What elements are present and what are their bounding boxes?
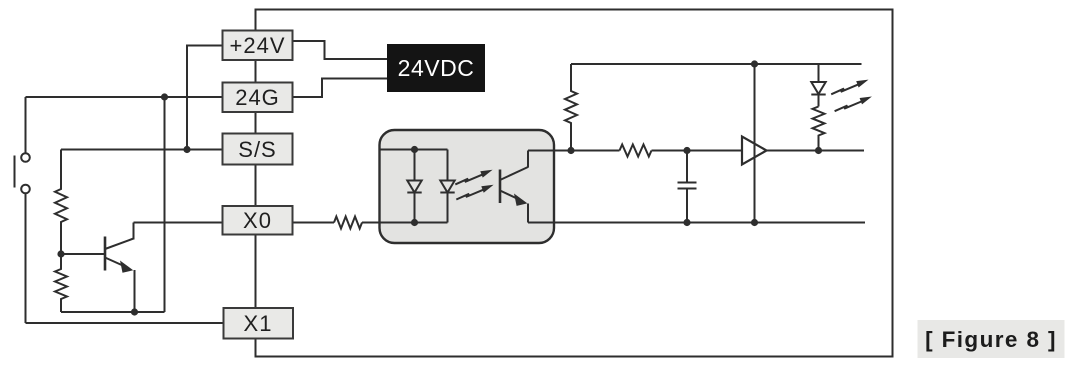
capacitor C1 xyxy=(678,151,697,223)
wire switch to X1 xyxy=(26,322,223,324)
wire jumper +24V to S/S xyxy=(187,46,223,150)
light arrows indicator xyxy=(831,80,872,112)
top rail xyxy=(571,63,862,65)
wire R3 to optocoupler xyxy=(362,222,380,224)
resistor R3 xyxy=(334,217,362,229)
junction dot base node xyxy=(57,250,64,257)
buffer power line vertical xyxy=(754,64,756,223)
diode D1 xyxy=(407,150,421,223)
wire X0 line left xyxy=(134,222,223,224)
figure label [ Figure 8 ] xyxy=(918,320,1065,358)
light arrows opto xyxy=(455,170,493,200)
LED D2 xyxy=(440,150,454,223)
junction dot top rail buffer xyxy=(751,60,758,67)
resistor R5 xyxy=(620,145,652,157)
resistor R2 xyxy=(55,254,67,312)
terminal X0 xyxy=(223,206,293,235)
svg-text:[ Figure 8 ]: [ Figure 8 ] xyxy=(925,327,1057,352)
wire 24G drop (vertical) xyxy=(164,97,166,312)
terminal 24G xyxy=(223,83,293,113)
LED indicator D3 xyxy=(811,64,825,107)
wire S/S line xyxy=(61,149,223,151)
resistor R6 xyxy=(813,107,825,151)
transistor Q1 xyxy=(105,223,135,313)
junction dot cap bottom xyxy=(683,219,690,226)
optocoupler U1 body xyxy=(380,130,555,243)
resistor R1 xyxy=(55,150,67,255)
power supply 24VDC xyxy=(387,44,485,92)
wire opto internal bottom (X0) xyxy=(380,222,448,224)
phototransistor Q2 xyxy=(500,151,528,223)
wire +24V to 24VDC xyxy=(293,41,388,59)
wire base node to Q1 xyxy=(61,253,104,255)
junction dot jumper-S/S xyxy=(183,146,190,153)
wire bottom inner xyxy=(61,311,165,313)
svg-text:24VDC: 24VDC xyxy=(398,55,475,81)
wire buffer output xyxy=(767,150,865,152)
switch S1 xyxy=(15,97,30,323)
terminal +24V xyxy=(223,31,293,61)
wire X0 to resistor R3 xyxy=(293,222,335,224)
wire 24G to 24VDC xyxy=(293,79,388,98)
svg-text:X1: X1 xyxy=(244,311,273,336)
terminal X1 xyxy=(224,308,294,339)
PLC module frame xyxy=(256,10,893,357)
svg-text:+24V: +24V xyxy=(230,33,286,58)
wire switch to 24G xyxy=(26,96,223,98)
wire R5 to buffer xyxy=(652,150,743,152)
svg-text:S/S: S/S xyxy=(238,137,276,162)
junction dot buffer bottom xyxy=(751,219,758,226)
pull-up resistor R4 xyxy=(565,64,577,151)
junction dot LED branch xyxy=(815,147,822,154)
wire collector line xyxy=(528,150,620,152)
terminal S/S xyxy=(223,134,293,165)
wire opto internal top (S/S) xyxy=(380,149,448,151)
junction dot emitter xyxy=(131,308,138,315)
junction dot pullup xyxy=(567,147,574,154)
wire emitter/bottom line xyxy=(528,222,865,224)
buffer U2 xyxy=(742,137,767,165)
junction dot opto bottom xyxy=(411,219,418,226)
junction dot RC node xyxy=(683,147,690,154)
svg-text:24G: 24G xyxy=(235,85,280,110)
junction dot top wire xyxy=(161,93,168,100)
svg-text:X0: X0 xyxy=(243,208,272,233)
junction dot opto top xyxy=(411,146,418,153)
